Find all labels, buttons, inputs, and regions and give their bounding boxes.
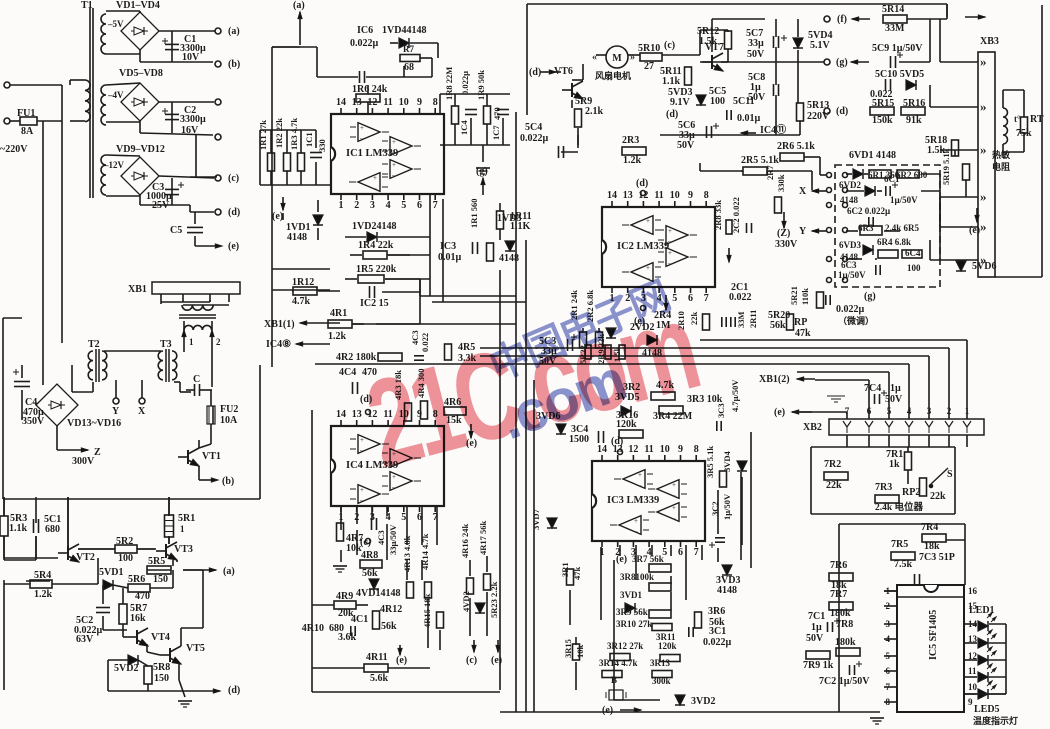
svg-text:10A: 10A — [220, 415, 238, 426]
svg-text:6R4 6.8k: 6R4 6.8k — [877, 237, 911, 247]
svg-text:3R5 5.1k: 3R5 5.1k — [705, 446, 715, 478]
svg-text:XB1: XB1 — [128, 284, 147, 295]
svg-text:热敏: 热敏 — [992, 149, 1011, 160]
svg-text:IC3 LM339: IC3 LM339 — [607, 495, 659, 506]
svg-text:50V: 50V — [806, 633, 824, 644]
svg-text:T3: T3 — [160, 339, 172, 350]
svg-text:91k: 91k — [906, 115, 922, 126]
svg-text:3300µ: 3300µ — [180, 114, 206, 125]
svg-text:6VD2: 6VD2 — [839, 180, 861, 190]
svg-text:3R6: 3R6 — [708, 606, 725, 617]
svg-text:33M: 33M — [736, 311, 746, 328]
svg-text:110k: 110k — [800, 288, 810, 305]
svg-text:5R1: 5R1 — [178, 513, 195, 524]
svg-text:22k: 22k — [826, 480, 842, 491]
svg-text:(a): (a) — [293, 0, 305, 11]
svg-text:56k: 56k — [770, 320, 786, 331]
svg-text:4R12: 4R12 — [380, 604, 402, 615]
svg-text:(d): (d) — [636, 178, 648, 189]
svg-text:RP2: RP2 — [902, 487, 920, 498]
svg-text:4C3: 4C3 — [376, 530, 386, 545]
svg-text:5R19 5.1k: 5R19 5.1k — [941, 148, 951, 185]
svg-text:IC4⑪: IC4⑪ — [760, 123, 786, 136]
svg-text:5VD1: 5VD1 — [99, 567, 123, 578]
svg-text:VT4: VT4 — [151, 632, 170, 643]
svg-text:14: 14 — [597, 444, 607, 455]
svg-text:2R7: 2R7 — [765, 165, 775, 180]
svg-text:+: + — [360, 436, 364, 444]
svg-text:2R3: 2R3 — [622, 135, 639, 146]
svg-text:R7: R7 — [403, 44, 414, 54]
svg-text:(d): (d) — [228, 685, 240, 696]
svg-text:(b): (b) — [222, 476, 234, 487]
svg-text:4: 4 — [386, 200, 391, 211]
svg-text:11: 11 — [644, 444, 653, 455]
svg-text:8A: 8A — [21, 126, 34, 137]
svg-text:5R23 2.2k: 5R23 2.2k — [489, 581, 499, 618]
svg-text:10: 10 — [968, 682, 978, 692]
svg-text:1VD24148: 1VD24148 — [352, 221, 396, 232]
svg-text:4VD14148: 4VD14148 — [356, 588, 400, 599]
svg-text:11: 11 — [654, 190, 663, 201]
svg-text:3R14 4.7k: 3R14 4.7k — [599, 658, 638, 668]
svg-text:7R5: 7R5 — [891, 539, 908, 550]
svg-text:_: _ — [671, 489, 676, 497]
svg-text:Z: Z — [94, 447, 101, 458]
svg-text:(e): (e) — [228, 241, 239, 252]
svg-text:(d): (d) — [666, 109, 678, 120]
svg-text:1.2k: 1.2k — [623, 155, 642, 166]
svg-text:0.022µ: 0.022µ — [703, 637, 732, 648]
svg-text:16: 16 — [968, 586, 978, 596]
svg-text:2R5 5.1k: 2R5 5.1k — [741, 155, 779, 166]
svg-text:18k: 18k — [924, 541, 940, 552]
svg-text:0.022µ: 0.022µ — [836, 304, 865, 315]
svg-text:5: 5 — [401, 512, 406, 523]
svg-text:8: 8 — [433, 97, 438, 108]
svg-text:5VD2: 5VD2 — [114, 663, 138, 674]
svg-text:5: 5 — [401, 200, 406, 211]
svg-text:680: 680 — [45, 524, 60, 535]
svg-text:7C1: 7C1 — [808, 611, 825, 622]
svg-text:470: 470 — [135, 591, 150, 602]
svg-text:6C1: 6C1 — [884, 174, 900, 184]
svg-text:22k: 22k — [930, 491, 946, 502]
svg-text:T2: T2 — [88, 339, 100, 350]
svg-text:XB1(2): XB1(2) — [759, 374, 790, 385]
svg-text:3R13: 3R13 — [650, 658, 670, 668]
svg-text:»: » — [980, 142, 987, 157]
svg-text:50V: 50V — [885, 394, 903, 405]
svg-text:3R8100k: 3R8100k — [620, 572, 654, 582]
svg-text:4R17 56k: 4R17 56k — [478, 520, 488, 555]
svg-text:13: 13 — [352, 409, 362, 420]
svg-text:6C2 0.022µ: 6C2 0.022µ — [847, 206, 891, 216]
svg-text:+: + — [672, 481, 676, 489]
svg-text:7: 7 — [704, 293, 709, 304]
svg-text:_: _ — [645, 225, 650, 233]
svg-text:(e): (e) — [396, 655, 407, 666]
svg-text:5R21: 5R21 — [789, 286, 799, 305]
svg-text:3R12 27k: 3R12 27k — [607, 641, 643, 651]
svg-text:IC4⑧: IC4⑧ — [266, 339, 291, 350]
svg-text:VT2: VT2 — [76, 552, 95, 563]
svg-text:Y: Y — [799, 226, 807, 237]
svg-text:+: + — [638, 471, 642, 479]
svg-text:8: 8 — [704, 190, 709, 201]
svg-text:7R2: 7R2 — [824, 459, 841, 470]
svg-text:VD9–VD12: VD9–VD12 — [116, 144, 165, 155]
svg-text:0.022µ: 0.022µ — [460, 71, 470, 95]
svg-text:6VD1 4148: 6VD1 4148 — [849, 150, 896, 161]
svg-text:（微调）: （微调） — [838, 315, 874, 326]
svg-text:LED5: LED5 — [974, 704, 1000, 715]
svg-text:7R9 1k: 7R9 1k — [803, 660, 834, 671]
svg-text:C5: C5 — [170, 225, 182, 236]
svg-text:330V: 330V — [775, 239, 798, 250]
svg-text:68: 68 — [404, 62, 414, 73]
svg-text:50V: 50V — [677, 140, 695, 151]
svg-text:_: _ — [359, 494, 364, 502]
svg-text:5R2: 5R2 — [116, 536, 133, 547]
svg-text:7: 7 — [433, 200, 438, 211]
svg-text:120k: 120k — [658, 641, 677, 651]
svg-text:11: 11 — [383, 97, 392, 108]
svg-text:56k: 56k — [381, 621, 397, 632]
svg-text:6: 6 — [688, 293, 693, 304]
svg-text:VT5: VT5 — [186, 643, 205, 654]
svg-text:1.2k: 1.2k — [34, 589, 53, 600]
svg-text:4R16 24k: 4R16 24k — [460, 523, 470, 558]
svg-text:+: + — [668, 227, 672, 235]
svg-text:0.022: 0.022 — [729, 292, 752, 303]
svg-text:0.022µ: 0.022µ — [350, 38, 379, 49]
svg-text:4R1: 4R1 — [330, 308, 347, 319]
svg-text:2.4k 电位器: 2.4k 电位器 — [875, 501, 924, 513]
svg-text:3.6k: 3.6k — [338, 632, 357, 643]
svg-text:3C1: 3C1 — [709, 626, 726, 637]
svg-text:2.1k: 2.1k — [585, 106, 604, 117]
svg-text:4C3: 4C3 — [410, 330, 420, 345]
svg-text:5R14: 5R14 — [882, 4, 904, 15]
svg-text:(g): (g) — [836, 57, 848, 68]
svg-text:3VD4: 3VD4 — [722, 450, 732, 472]
svg-text:33µ/50V: 33µ/50V — [388, 524, 398, 555]
svg-text:–12V: –12V — [103, 160, 125, 170]
svg-text:9.1V: 9.1V — [670, 97, 691, 108]
svg-text:33M: 33M — [885, 23, 905, 34]
svg-text:5C9 1µ/50V: 5C9 1µ/50V — [872, 43, 923, 54]
svg-text:电阻: 电阻 — [992, 161, 1010, 172]
svg-text:330: 330 — [317, 139, 327, 152]
svg-text:2: 2 — [216, 337, 221, 347]
svg-text:X: X — [138, 406, 146, 417]
svg-text:7C4: 7C4 — [864, 383, 881, 394]
svg-text:47k: 47k — [795, 328, 811, 339]
svg-text:4R10: 4R10 — [302, 623, 324, 634]
svg-text:180k: 180k — [830, 608, 851, 619]
svg-text:5.6k: 5.6k — [370, 673, 389, 684]
svg-text:4R11: 4R11 — [366, 652, 388, 663]
svg-text:3VD7: 3VD7 — [531, 508, 541, 530]
svg-text:«: « — [592, 52, 597, 63]
svg-text:22k: 22k — [689, 312, 699, 326]
svg-text:3VD2: 3VD2 — [691, 696, 715, 707]
svg-text:27: 27 — [644, 61, 654, 72]
svg-text:1R5 220k: 1R5 220k — [356, 264, 397, 275]
svg-text:4.7k: 4.7k — [292, 296, 311, 307]
svg-text:VT1: VT1 — [202, 451, 221, 462]
svg-text:5R13: 5R13 — [807, 100, 829, 111]
svg-text:11: 11 — [968, 666, 977, 676]
svg-text:3R15: 3R15 — [563, 639, 573, 658]
svg-text:7C2 1µ/50V: 7C2 1µ/50V — [819, 676, 870, 687]
svg-text:XB3: XB3 — [980, 36, 999, 47]
svg-text:(c): (c) — [360, 537, 371, 548]
svg-text:VT3: VT3 — [174, 544, 193, 555]
svg-text:9: 9 — [688, 190, 693, 201]
svg-text:7.5k: 7.5k — [894, 559, 913, 570]
svg-text:_: _ — [391, 146, 396, 154]
svg-text:10: 10 — [399, 97, 409, 108]
svg-text:12: 12 — [628, 444, 638, 455]
svg-text:3R9 56k: 3R9 56k — [616, 607, 648, 617]
svg-text:50V: 50V — [747, 49, 765, 60]
svg-text:(c): (c) — [466, 655, 477, 666]
svg-text:IC2 LM339: IC2 LM339 — [617, 241, 669, 252]
svg-text:300k: 300k — [652, 676, 671, 686]
svg-text:IC5 SF1405: IC5 SF1405 — [928, 610, 939, 660]
svg-text:7: 7 — [694, 547, 699, 558]
svg-text:S: S — [947, 469, 953, 480]
svg-text:(e): (e) — [272, 211, 283, 222]
svg-text:IC6: IC6 — [357, 25, 373, 36]
svg-text:100: 100 — [907, 263, 921, 273]
svg-text:8: 8 — [694, 444, 699, 455]
svg-text:6: 6 — [678, 547, 683, 558]
svg-text:_: _ — [391, 169, 396, 177]
svg-text:T1: T1 — [81, 0, 93, 11]
svg-text:180k: 180k — [835, 637, 856, 648]
svg-text:6C3: 6C3 — [841, 260, 857, 270]
svg-text:+: + — [373, 174, 377, 182]
svg-text:2: 2 — [354, 200, 359, 211]
svg-text:1µ: 1µ — [811, 622, 822, 633]
svg-text:1C4: 1C4 — [459, 120, 469, 135]
svg-text:+: + — [392, 138, 396, 146]
svg-text:4148: 4148 — [287, 232, 307, 243]
svg-text:1.1k: 1.1k — [662, 76, 681, 87]
svg-text:4C4: 4C4 — [339, 367, 356, 378]
svg-text:+: + — [634, 517, 638, 525]
svg-text:4R15 18k: 4R15 18k — [422, 593, 432, 628]
svg-text:2R6 5.1k: 2R6 5.1k — [777, 141, 815, 152]
svg-text:(d): (d) — [529, 67, 541, 78]
svg-text:1C7: 1C7 — [491, 125, 501, 140]
svg-text:C: C — [193, 374, 200, 385]
svg-text:220V: 220V — [807, 111, 830, 122]
svg-text:_: _ — [667, 235, 672, 243]
svg-text:150: 150 — [153, 574, 168, 585]
svg-text:+: + — [646, 217, 650, 225]
svg-text:300V: 300V — [72, 456, 95, 467]
svg-text:»: » — [980, 99, 987, 114]
svg-text:_: _ — [633, 525, 638, 533]
svg-text:»: » — [630, 52, 635, 63]
svg-text:7C3 51P: 7C3 51P — [919, 552, 955, 563]
svg-text:_: _ — [667, 257, 672, 265]
svg-text:4.7µ/50V: 4.7µ/50V — [730, 379, 740, 412]
svg-text:X: X — [799, 186, 807, 197]
svg-text:3VD1: 3VD1 — [620, 590, 642, 600]
svg-text:4148: 4148 — [717, 585, 737, 596]
svg-text:(d): (d) — [611, 436, 623, 447]
svg-text:350V: 350V — [22, 416, 45, 427]
svg-text:5R4: 5R4 — [34, 570, 51, 581]
svg-text:5C11: 5C11 — [733, 96, 755, 107]
svg-text:(g): (g) — [476, 166, 488, 177]
svg-text:9: 9 — [417, 97, 422, 108]
svg-text:10V: 10V — [182, 52, 200, 63]
svg-text:1R3 4.7k: 1R3 4.7k — [289, 118, 299, 150]
svg-text:330k: 330k — [776, 174, 786, 192]
svg-text:(d): (d) — [836, 106, 848, 117]
svg-text:(a): (a) — [223, 566, 235, 577]
svg-text:6C4: 6C4 — [905, 248, 921, 258]
svg-text:LED1: LED1 — [969, 605, 995, 616]
svg-text:2R8 33k: 2R8 33k — [713, 200, 723, 230]
svg-text:+: + — [646, 264, 650, 272]
svg-text:温度指示灯: 温度指示灯 — [973, 715, 1018, 726]
svg-text:2R11: 2R11 — [748, 310, 758, 328]
svg-text:1µ/50V: 1µ/50V — [838, 270, 866, 280]
svg-text:1VD3: 1VD3 — [497, 213, 521, 224]
svg-text:5VD6: 5VD6 — [972, 261, 996, 272]
svg-text:»: » — [980, 189, 987, 204]
svg-text:5.1V: 5.1V — [810, 40, 831, 51]
svg-text:2C2 0.022: 2C2 0.022 — [731, 197, 741, 233]
svg-text:56k: 56k — [362, 568, 378, 579]
svg-text:(b): (b) — [228, 59, 240, 70]
svg-text:1: 1 — [180, 524, 185, 534]
svg-text:–4V: –4V — [107, 90, 124, 100]
svg-text:1k: 1k — [889, 459, 900, 470]
svg-text:(d): (d) — [228, 207, 240, 218]
svg-text:1R1 560: 1R1 560 — [469, 198, 479, 228]
svg-text:1R2 22k: 1R2 22k — [274, 118, 284, 148]
svg-text:Y: Y — [112, 406, 120, 417]
svg-text:(c): (c) — [664, 40, 675, 51]
svg-text:1VD44148: 1VD44148 — [382, 25, 426, 36]
svg-text:0.022µ: 0.022µ — [520, 133, 549, 144]
svg-text:12: 12 — [638, 190, 648, 201]
svg-text:FU2: FU2 — [220, 404, 238, 415]
svg-text:25V: 25V — [152, 200, 170, 211]
svg-text:_: _ — [359, 132, 364, 140]
svg-text:16V: 16V — [181, 125, 199, 136]
svg-text:+: + — [392, 161, 396, 169]
svg-text:XB1(1): XB1(1) — [264, 319, 295, 330]
svg-text:+: + — [360, 124, 364, 132]
svg-text:5C10 5VD5: 5C10 5VD5 — [875, 69, 924, 80]
svg-text:(f): (f) — [837, 14, 847, 25]
svg-text:_: _ — [671, 512, 676, 520]
svg-text:14: 14 — [607, 190, 617, 201]
svg-text:33µ: 33µ — [748, 38, 764, 49]
svg-text:VD1–VD4: VD1–VD4 — [116, 0, 160, 11]
svg-text:0.01µ: 0.01µ — [737, 113, 761, 124]
svg-text:»: » — [980, 54, 987, 69]
svg-text:1µ/50V: 1µ/50V — [890, 195, 918, 205]
svg-text:100: 100 — [118, 553, 133, 564]
svg-text:1µ/50V: 1µ/50V — [722, 493, 732, 520]
svg-text:1: 1 — [189, 337, 194, 347]
svg-text:(a): (a) — [228, 26, 240, 37]
svg-text:(e): (e) — [616, 554, 627, 565]
svg-text:VD13~VD16: VD13~VD16 — [67, 418, 121, 429]
svg-text:+: + — [360, 486, 364, 494]
svg-text:_: _ — [372, 182, 377, 190]
svg-text:(e): (e) — [602, 705, 613, 716]
svg-text:+: + — [668, 249, 672, 257]
svg-text:9: 9 — [968, 697, 973, 707]
svg-text:1.2k: 1.2k — [328, 331, 347, 342]
svg-text:100: 100 — [710, 96, 725, 107]
svg-text:3C3: 3C3 — [716, 403, 726, 418]
svg-text:»: » — [980, 219, 987, 234]
svg-text:14: 14 — [336, 97, 346, 108]
svg-text:13: 13 — [623, 190, 633, 201]
svg-text:_: _ — [359, 444, 364, 452]
svg-text:(c): (c) — [228, 173, 239, 184]
svg-text:1µ: 1µ — [890, 383, 901, 394]
svg-text:5C4: 5C4 — [525, 122, 542, 133]
svg-text:0.01µ: 0.01µ — [438, 252, 462, 263]
svg-text:4C1: 4C1 — [351, 614, 368, 625]
svg-text:9: 9 — [678, 444, 683, 455]
svg-text:6VD3: 6VD3 — [839, 240, 861, 250]
svg-text:1R4 22k: 1R4 22k — [358, 240, 394, 251]
svg-text:VD5–VD8: VD5–VD8 — [119, 68, 163, 79]
svg-text:4148: 4148 — [840, 195, 859, 205]
svg-text:10: 10 — [670, 190, 680, 201]
svg-text:~220V: ~220V — [0, 144, 28, 155]
svg-text:XB2: XB2 — [803, 422, 822, 433]
svg-text:6R2 680: 6R2 680 — [896, 170, 928, 180]
svg-text:150: 150 — [154, 673, 169, 684]
svg-text:–5V: –5V — [107, 19, 124, 29]
svg-text:63V: 63V — [76, 634, 94, 645]
svg-text:5R8: 5R8 — [153, 662, 170, 673]
svg-text:150k: 150k — [872, 115, 893, 126]
svg-text:_: _ — [637, 479, 642, 487]
svg-text:1R8 22M: 1R8 22M — [444, 67, 454, 100]
svg-text:3R10 27k: 3R10 27k — [616, 619, 652, 629]
svg-text:+: + — [672, 504, 676, 512]
svg-text:3: 3 — [370, 200, 375, 211]
svg-text:风扇电机: 风扇电机 — [595, 70, 631, 81]
svg-text:RP: RP — [794, 317, 807, 328]
svg-text:1.1k: 1.1k — [9, 523, 28, 534]
svg-text:6: 6 — [417, 200, 422, 211]
svg-text:7R3: 7R3 — [875, 482, 892, 493]
svg-text:470: 470 — [492, 107, 502, 120]
svg-text:VT7: VT7 — [705, 42, 724, 53]
svg-text:16k: 16k — [130, 613, 146, 624]
svg-text:1: 1 — [339, 200, 344, 211]
svg-text:47k: 47k — [572, 567, 582, 581]
svg-text:14: 14 — [336, 409, 346, 420]
